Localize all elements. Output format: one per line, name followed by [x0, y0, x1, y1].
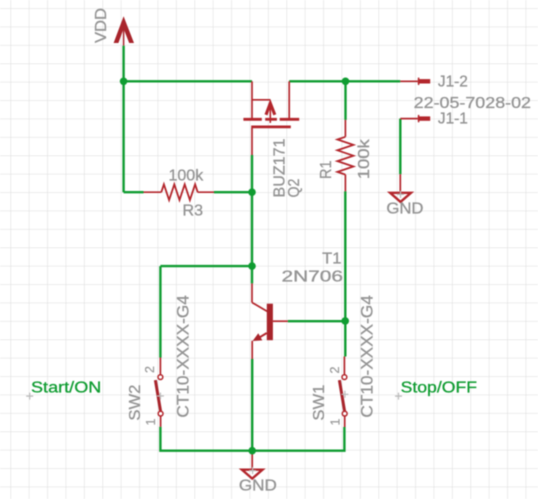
svg-text:J1-2: J1-2 [438, 74, 468, 91]
wire VDD stem [122, 46, 124, 82]
wire node B to R1 top [344, 81, 346, 120]
wire SW2 bottom to rail [160, 427, 252, 451]
wire J1-1 to GND [399, 119, 401, 175]
wire R3 right to node C [214, 191, 252, 193]
resistor R3 [144, 184, 215, 200]
blade [339, 380, 344, 411]
svg-text:1: 1 [328, 419, 342, 426]
wire top rail right (Q2 drain to J1-2) [289, 80, 400, 82]
pin source lead [251, 81, 253, 118]
base bar [267, 304, 273, 341]
svg-text:J1-1: J1-1 [438, 111, 468, 128]
wire T1 emitter to bottom rail [251, 359, 253, 451]
svg-text:SW1: SW1 [311, 385, 328, 421]
ground symbol right [390, 174, 411, 202]
emitter diagonal [256, 333, 267, 340]
svg-text:100k: 100k [356, 139, 373, 179]
connector pin J1-1 [400, 115, 430, 122]
pin 1 contact circle [342, 411, 347, 416]
svg-text:GND: GND [386, 200, 423, 217]
resistor R1 [337, 120, 353, 191]
pin 1 lead [160, 416, 162, 427]
svg-text:SW2: SW2 [127, 385, 144, 421]
channel dash bulk [265, 118, 277, 121]
svg-text:100k: 100k [169, 167, 204, 184]
wire gate column (C to D) [251, 155, 253, 266]
pin drain lead [288, 81, 290, 118]
wire T1 base to node E [288, 320, 345, 322]
source stub [252, 99, 270, 101]
gate lead [251, 128, 253, 155]
blade [155, 380, 160, 411]
ground symbol bottom [242, 451, 263, 479]
svg-text:2: 2 [143, 366, 157, 373]
mosfet Q2 BUZ171 [243, 81, 299, 155]
pin 2 contact circle [342, 375, 347, 380]
junction node B (drain rail / R1) [342, 78, 350, 86]
wire bottom rail to SW1 [252, 427, 344, 451]
svg-text:2N706: 2N706 [282, 269, 344, 286]
svg-text:R3: R3 [183, 203, 204, 220]
collector lead [251, 283, 253, 302]
svg-text:GND: GND [239, 477, 277, 494]
junction node A (VDD rail) [120, 78, 128, 86]
wire top rail left (VDD to Q2 source) [124, 80, 252, 82]
junction node D (collector / SW2) [248, 262, 256, 270]
channel dash source [243, 118, 261, 121]
svg-text:R1: R1 [318, 161, 335, 180]
bulk arrow tail [269, 106, 271, 123]
svg-text:Start/ON: Start/ON [31, 380, 101, 397]
pin 2 contact circle [158, 375, 163, 380]
emitter lead [251, 341, 253, 359]
wire D to SW2 branch horizontal [160, 265, 252, 267]
switch SW2 [155, 358, 164, 427]
wire SW2 branch vertical [159, 266, 161, 357]
collector diagonal [252, 303, 267, 312]
switch SW1 [339, 357, 348, 428]
power symbol VDD [114, 16, 134, 45]
svg-text:CT10-XXXX-G4: CT10-XXXX-G4 [358, 295, 376, 417]
pin 1 lead [344, 416, 346, 427]
svg-text:Stop/OFF: Stop/OFF [401, 379, 478, 396]
pin 2 lead [343, 357, 345, 375]
pin 2 lead [159, 358, 161, 375]
gate bar [251, 126, 291, 129]
svg-text:1: 1 [144, 419, 158, 426]
svg-text:VDD: VDD [93, 8, 110, 43]
wire R3 left stub [124, 191, 144, 193]
svg-text:CT10-XXXX-G4: CT10-XXXX-G4 [175, 295, 193, 417]
wire left column (VDD to R3) [122, 81, 124, 192]
svg-text:T1: T1 [322, 251, 341, 268]
wire D to T1 collector [251, 266, 253, 283]
pin 1 contact circle [158, 411, 163, 416]
svg-text:2: 2 [328, 367, 342, 374]
channel dash drain [280, 118, 300, 121]
junction node C (gate / R3) [248, 188, 256, 196]
origin cross Start/ON [26, 393, 33, 400]
transistor T1 2N706 [252, 283, 288, 359]
connector pin J1-2 [400, 78, 430, 85]
origin cross Stop/OFF [395, 393, 402, 400]
base stub [273, 320, 288, 322]
svg-text:Q2: Q2 [286, 179, 303, 198]
origin cross SW2 [157, 393, 164, 400]
svg-text:22-05-7028-02: 22-05-7028-02 [414, 95, 531, 112]
junction node E (base / R1 / SW1) [341, 317, 349, 325]
junction node F (emitter / bottom rail / GND) [248, 447, 256, 455]
bulk arrow head [266, 103, 275, 115]
wire R1 bottom through E to SW1 [344, 191, 346, 356]
origin cross SW1 [341, 391, 348, 398]
emitter arrowhead [253, 333, 263, 341]
